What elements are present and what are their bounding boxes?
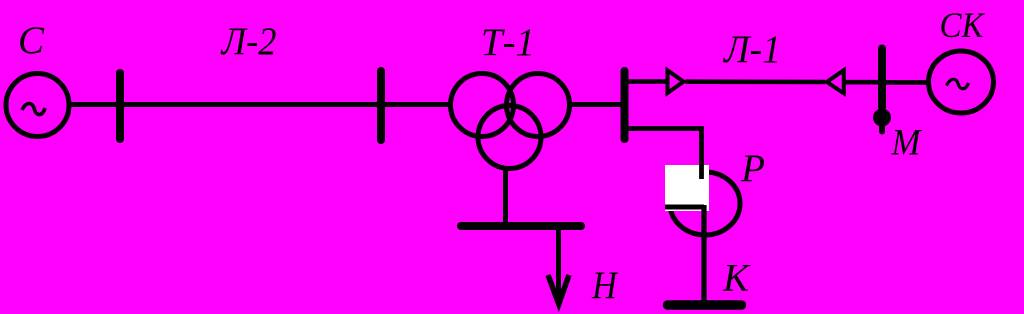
busbar 2 [377,71,385,140]
arrow right (power direction on Л-1) [668,70,684,93]
transformer T-1 (three-winding) [451,74,570,169]
load bar H [461,222,581,230]
busbar 3 [621,71,629,139]
synchronous condenser СК [929,51,994,113]
wire: busbar 3 to arrow (line Л-1 left) [628,79,666,84]
dot of M [873,109,891,127]
svg-text:Т-1: Т-1 [481,21,535,64]
svg-text:Н: Н [591,264,619,307]
arrow left (power direction near СК) [827,70,844,93]
busbar 1 [116,73,124,139]
wire: reactor to K bar [701,205,706,302]
stub below M dot [879,120,885,132]
svg-text:К: К [722,257,751,300]
short-circuit bar K [668,300,742,310]
svg-text:С: С [18,19,45,62]
wire: M bar to synchronous condenser [885,80,930,85]
svg-text:Л-1: Л-1 [722,28,781,71]
svg-text:СК: СК [940,5,986,45]
wire: arrow to arrow (line Л-1 middle) [686,79,826,84]
svg-text:Л-2: Л-2 [220,20,277,63]
svg-text:М: М [891,123,923,164]
wire: busbar 3 to reactor branch (horizontal) [628,129,702,180]
wire: generator C to transformer (line Л-2) [67,102,452,107]
generator C (system source) [6,74,69,137]
wire: arrow to M bar [846,80,880,85]
load arrow shaft [556,230,561,303]
reactor P [665,165,740,235]
load arrow head [548,275,569,304]
svg-text:Р: Р [740,147,765,190]
switch bar M [878,49,886,108]
wire: transformer LV winding down to load bar [503,166,508,224]
wire: transformer to busbar 3 [568,102,622,107]
